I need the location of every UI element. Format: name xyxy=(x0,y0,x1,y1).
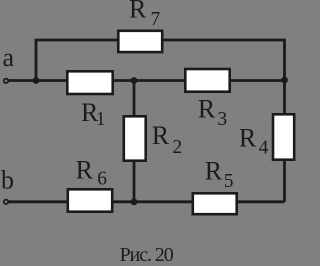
svg-text:2: 2 xyxy=(172,137,182,158)
svg-text:R: R xyxy=(76,155,94,184)
svg-text:R: R xyxy=(205,157,223,186)
svg-text:b: b xyxy=(1,165,14,194)
svg-text:a: a xyxy=(3,43,15,72)
svg-text:4: 4 xyxy=(259,138,269,159)
svg-text:6: 6 xyxy=(97,169,107,190)
svg-text:5: 5 xyxy=(224,171,234,192)
svg-text:R: R xyxy=(239,124,257,153)
svg-text:Рис. 20: Рис. 20 xyxy=(120,244,174,266)
svg-text:7: 7 xyxy=(151,9,161,30)
svg-text:R: R xyxy=(198,94,216,123)
svg-text:3: 3 xyxy=(217,109,227,130)
svg-text:R: R xyxy=(152,121,170,150)
svg-text:1: 1 xyxy=(96,109,106,130)
svg-text:R: R xyxy=(129,0,147,24)
